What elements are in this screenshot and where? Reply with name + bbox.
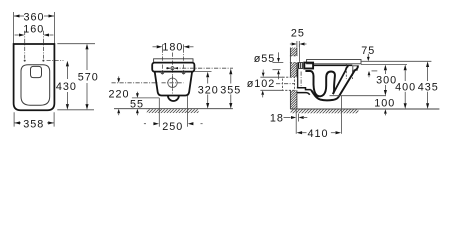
supply pipe dashed in wall	[290, 55, 298, 57]
wire extension bolt axis right	[372, 70, 378, 72]
node vertical centerline rear view	[172, 53, 174, 94]
svg-text:250: 250	[162, 121, 183, 133]
dimension 180 hole spacing rear view	[153, 46, 157, 48]
svg-text:400: 400	[395, 82, 416, 94]
flush hole top rear view	[171, 67, 174, 70]
hidden flush channel dashes side view	[345, 64, 347, 79]
dimension 220 rear view	[118, 76, 120, 78]
wire extension right body rear view	[186, 96, 188, 127]
inlet spud side view	[298, 62, 304, 69]
trap U tube side view	[305, 71, 335, 96]
fixing hole right rear view	[182, 71, 185, 74]
wire extension 410 right	[340, 96, 342, 134]
svg-text:ø55: ø55	[254, 53, 276, 65]
svg-text:430: 430	[56, 81, 77, 93]
wire extension rim bottom rear view	[195, 71, 212, 73]
toilet back face side view	[297, 69, 299, 88]
toilet rim band rear view	[152, 63, 194, 72]
seat hinge hole side view	[353, 66, 358, 70]
outlet stub side view	[297, 88, 311, 90]
svg-text:435: 435	[418, 82, 439, 94]
svg-text:160: 160	[23, 24, 44, 36]
svg-text:570: 570	[78, 72, 99, 84]
node hole centerline left B	[42, 31, 44, 59]
wire extension outlet bottom rear view	[132, 97, 159, 99]
dimension 250 rear view	[144, 123, 146, 125]
wire extension outlet pipe edges	[260, 76, 282, 78]
node hole centerline rear A	[161, 49, 163, 75]
outlet pipe dashed in wall	[283, 77, 295, 90]
dimension 25 wall thickness	[296, 41, 298, 47]
wall edges	[289, 48, 291, 110]
svg-text:ø102: ø102	[247, 78, 276, 90]
toilet water surface plan view	[31, 66, 42, 77]
wire extension bowl bottom right	[330, 95, 387, 97]
floor line side view	[290, 108, 439, 110]
tank slab side view	[307, 60, 361, 64]
svg-text:410: 410	[307, 128, 328, 140]
dimension 358 bottom left view	[14, 122, 21, 124]
toilet outlet bulge rear view	[168, 96, 179, 101]
svg-text:358: 358	[23, 118, 44, 130]
dimension 435 side view	[426, 61, 429, 67]
wire extension inlet pipe edges	[273, 62, 284, 64]
dimension 160 hole spacing left view	[15, 34, 19, 36]
dimension 55 rear view	[136, 92, 138, 94]
svg-text:18: 18	[270, 113, 284, 125]
dimension 430 left view	[66, 61, 69, 67]
svg-text:300: 300	[376, 75, 397, 87]
node bolt axis side view	[300, 72, 302, 88]
fixing hole left rear view	[161, 71, 164, 74]
toilet outer body plan view	[14, 44, 55, 110]
wire extension lines 360 dim left view	[13, 12, 15, 44]
wire extension lines 358 dim	[13, 112, 15, 126]
node hole centerline rear B	[183, 49, 185, 75]
dimension 410 side view	[297, 131, 303, 134]
toilet rim opening plan view	[21, 65, 50, 105]
tank slab rear view	[154, 59, 193, 63]
wire extension seat top right	[361, 64, 407, 66]
drain circle rear view	[168, 78, 177, 87]
svg-text:220: 220	[108, 89, 129, 101]
bowl inner front wall side view	[333, 66, 349, 94]
toilet back top edge side view	[298, 44, 300, 62]
svg-text:25: 25	[291, 28, 305, 40]
bowl underside side view	[311, 90, 339, 101]
svg-text:360: 360	[23, 11, 44, 23]
svg-text:100: 100	[374, 98, 395, 110]
dimension 360 top left view	[14, 15, 24, 17]
node outlet pipe centerline	[276, 83, 295, 85]
ceramic top line side view	[314, 64, 353, 66]
dimension 300 side view	[384, 65, 387, 71]
toilet body rear view	[155, 72, 192, 96]
node drain centerline rear view	[112, 82, 158, 84]
dimension 400 side view	[404, 65, 407, 71]
wire extension top right left view	[57, 43, 95, 45]
dimension 320 rear view	[206, 72, 209, 78]
wire extension rim top right	[361, 60, 431, 62]
wire extension bottom right left view	[57, 109, 94, 111]
svg-text:180: 180	[162, 41, 183, 53]
node hole centerline left A	[24, 31, 26, 59]
floor line rear view	[114, 108, 233, 110]
bowl front face side view	[339, 65, 358, 96]
svg-text:320: 320	[198, 84, 219, 96]
dimension 570 left view	[85, 44, 88, 50]
dimension 355 rear view	[229, 69, 232, 75]
svg-text:355: 355	[220, 84, 241, 96]
wire extension 410 left	[295, 109, 297, 133]
